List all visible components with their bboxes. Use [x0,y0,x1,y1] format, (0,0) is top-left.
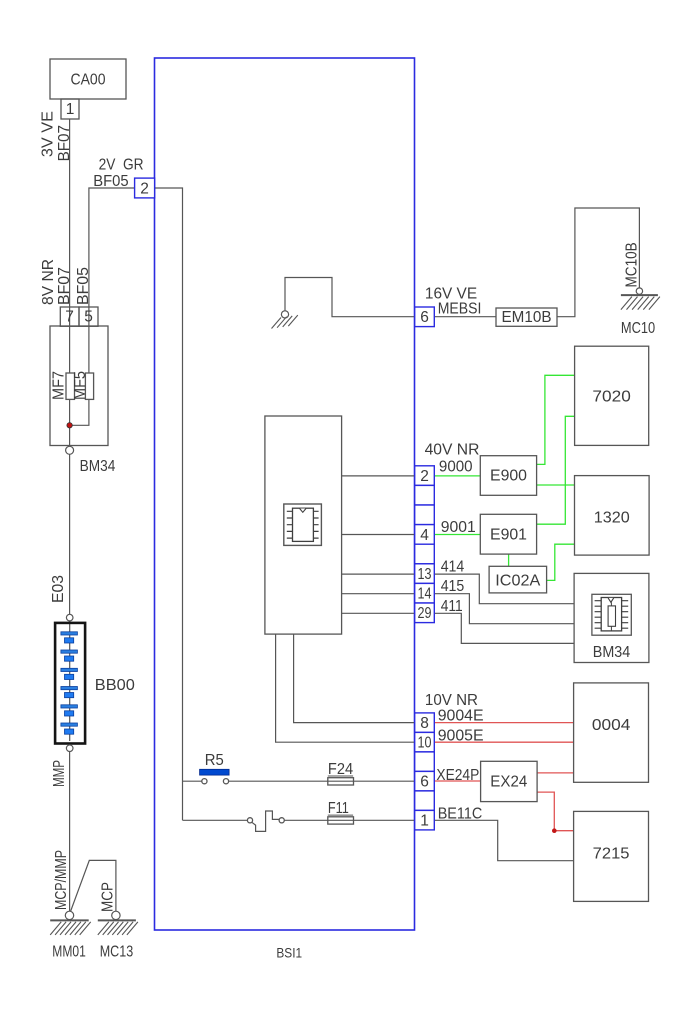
svg-text:0004: 0004 [592,717,631,734]
svg-text:E901: E901 [490,527,527,544]
svg-text:MCP/MMP: MCP/MMP [53,850,70,910]
svg-text:13: 13 [418,566,432,583]
svg-text:BB00: BB00 [95,677,135,694]
svg-text:XE24P: XE24P [436,767,479,784]
svg-text:411: 411 [441,598,463,615]
svg-text:MC10: MC10 [621,320,655,337]
svg-text:EM10B: EM10B [502,309,552,326]
svg-text:8V NR: 8V NR [40,259,57,305]
svg-text:2: 2 [140,180,149,197]
svg-text:415: 415 [441,578,465,595]
svg-text:CA00: CA00 [71,71,106,88]
svg-text:7215: 7215 [593,845,630,862]
svg-text:9001: 9001 [441,519,476,536]
svg-text:414: 414 [441,558,465,575]
svg-text:EX24: EX24 [490,774,527,791]
svg-text:1: 1 [420,813,429,830]
svg-text:E900: E900 [490,468,527,485]
svg-text:BE11C: BE11C [438,806,483,823]
svg-text:BSI1: BSI1 [276,944,302,960]
svg-text:MC10B: MC10B [623,242,640,287]
svg-text:29: 29 [418,605,432,622]
svg-text:BM34: BM34 [593,644,631,661]
svg-text:10V NR: 10V NR [425,692,478,709]
svg-text:14: 14 [418,586,432,603]
svg-text:5: 5 [84,309,93,326]
svg-text:F11: F11 [328,800,349,817]
svg-text:8: 8 [420,715,429,732]
svg-text:9004E: 9004E [438,707,484,724]
svg-text:7020: 7020 [592,389,631,406]
svg-text:6: 6 [420,774,429,791]
svg-text:BF07: BF07 [56,267,73,305]
svg-text:IC02A: IC02A [495,573,540,590]
svg-text:3V VE: 3V VE [40,111,57,157]
svg-text:F24: F24 [328,761,353,778]
svg-text:E03: E03 [50,575,67,603]
svg-text:BF05: BF05 [75,267,92,305]
svg-text:MM01: MM01 [52,943,86,960]
svg-text:7: 7 [65,309,74,326]
svg-text:4: 4 [420,527,429,544]
svg-text:MCP: MCP [100,882,117,912]
svg-text:9005E: 9005E [438,727,484,744]
svg-text:R5: R5 [205,752,224,769]
svg-text:2V GR: 2V GR [99,157,144,174]
svg-text:BF05: BF05 [93,173,128,190]
svg-text:MEBSI: MEBSI [438,301,482,318]
svg-text:40V NR: 40V NR [425,442,480,459]
svg-text:MC13: MC13 [100,943,134,960]
svg-text:MMP: MMP [51,760,68,787]
svg-text:BM34: BM34 [80,458,116,475]
svg-text:10: 10 [418,735,432,752]
svg-text:MF5: MF5 [72,371,89,400]
svg-text:9000: 9000 [439,459,473,476]
svg-text:MF7: MF7 [51,371,68,400]
svg-text:6: 6 [420,309,429,326]
svg-text:2: 2 [420,468,429,485]
svg-text:1: 1 [66,101,75,118]
svg-text:1320: 1320 [594,510,630,527]
svg-text:BF07: BF07 [56,125,73,161]
